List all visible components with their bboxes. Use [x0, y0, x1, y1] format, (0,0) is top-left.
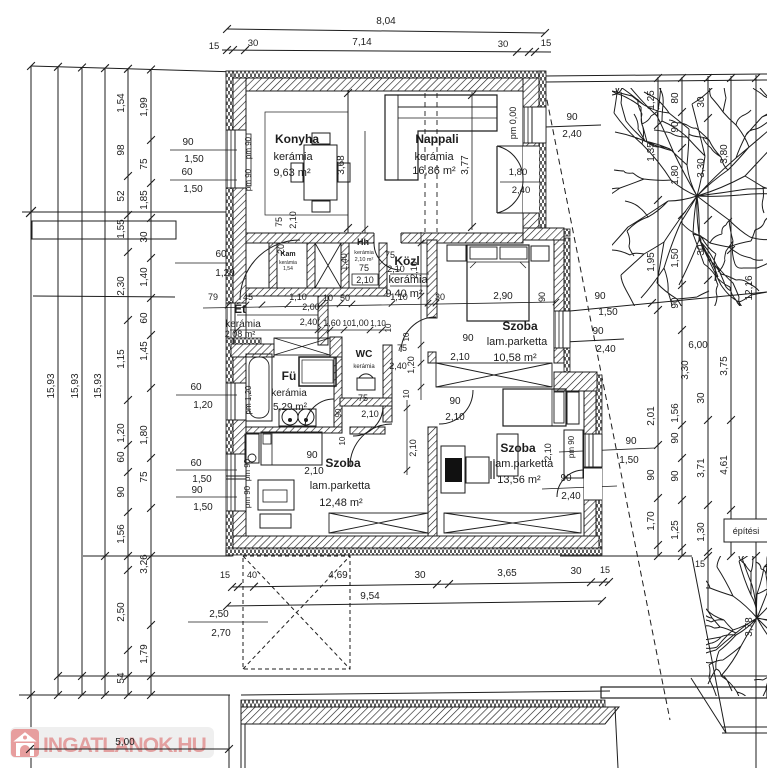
svg-text:40: 40 — [247, 570, 257, 580]
washbasins — [279, 409, 316, 426]
window right wall top — [523, 107, 546, 143]
kam left wall — [269, 243, 277, 296]
svg-text:15: 15 — [600, 565, 610, 575]
insulation band right mid — [564, 238, 570, 372]
stair X area — [315, 243, 341, 288]
svg-text:60: 60 — [215, 249, 227, 260]
right wall upper — [523, 78, 539, 228]
svg-text:90: 90 — [670, 470, 681, 482]
svg-text:1,50: 1,50 — [184, 154, 204, 165]
nightstand left — [447, 245, 466, 261]
corridor right wall upper b — [428, 352, 436, 363]
left survey vertical line 1 — [57, 67, 59, 695]
sofa nappali (L-shape) — [385, 95, 497, 180]
wc right wall — [383, 345, 392, 408]
window right mid wall — [554, 311, 570, 348]
svg-text:10: 10 — [402, 389, 411, 398]
dashed boundary line — [545, 90, 670, 720]
terrace dashed — [243, 556, 350, 669]
svg-text:kerámia: kerámia — [353, 364, 375, 370]
neighbor insulation — [241, 700, 605, 707]
bottom dim chain — [232, 582, 610, 587]
nappali dashed lines — [424, 93, 426, 232]
svg-text:1,54: 1,54 — [116, 93, 127, 113]
svg-text:2,50: 2,50 — [116, 602, 127, 622]
svg-text:4,61: 4,61 — [719, 455, 730, 475]
svg-text:13,56 m²: 13,56 m² — [497, 474, 541, 486]
svg-text:75: 75 — [139, 471, 150, 483]
svg-text:Fü: Fü — [282, 369, 297, 383]
horizontal line y=556 left — [83, 555, 232, 557]
svg-text:lam.parketta: lam.parketta — [310, 480, 371, 492]
hh right wall — [379, 243, 387, 296]
svg-text:75: 75 — [359, 263, 369, 273]
arc door szoba2 — [439, 390, 473, 424]
entrance door arcs — [497, 146, 523, 180]
svg-text:2,10: 2,10 — [304, 466, 324, 477]
svg-text:2,40(: 2,40( — [300, 317, 321, 327]
top dim 8,04 — [227, 29, 545, 33]
wall H4 under fu — [246, 427, 342, 433]
svg-text:10: 10 — [338, 436, 347, 445]
svg-text:kerámia: kerámia — [354, 250, 375, 256]
kam/stair wall — [307, 243, 315, 296]
svg-text:75: 75 — [385, 250, 395, 260]
watermark background — [10, 727, 214, 758]
dim chain B ticks — [147, 136, 155, 144]
svg-text:1,50: 1,50 — [598, 307, 618, 318]
toilet wc — [357, 378, 375, 390]
svg-text:5,29 m²: 5,29 m² — [273, 402, 308, 413]
svg-text:pm 90: pm 90 — [244, 136, 253, 159]
wc bottom wall — [340, 398, 392, 406]
svg-text:kerámia: kerámia — [271, 388, 307, 399]
nappali area line — [364, 131, 366, 233]
svg-text:pm 90: pm 90 — [243, 458, 252, 481]
svg-text:5,00: 5,00 — [115, 737, 135, 748]
svg-text:15: 15 — [541, 38, 552, 49]
right dim vertical x=756 — [755, 75, 757, 768]
svg-text:Szoba: Szoba — [325, 456, 361, 470]
svg-text:10: 10 — [323, 293, 333, 303]
svg-text:Ét: Ét — [234, 301, 246, 316]
svg-text:1,60: 1,60 — [323, 318, 341, 328]
left survey vertical line 0 (property corner) — [30, 66, 32, 768]
bottom right diagonals — [691, 678, 726, 733]
dim row y=330 — [230, 329, 390, 331]
svg-text:3,71: 3,71 — [696, 458, 707, 478]
konyha/nappali divider line — [347, 90, 349, 233]
svg-text:15,93: 15,93 — [46, 373, 57, 398]
svg-text:Hh: Hh — [357, 237, 369, 247]
svg-text:1,10: 1,10 — [289, 292, 307, 302]
svg-text:2,10: 2,10 — [356, 275, 374, 285]
right dim vertical x=731 — [730, 76, 732, 556]
corridor vertical dim lower x=407 — [406, 400, 408, 475]
epitesi box — [724, 519, 767, 542]
insulation band left — [226, 71, 233, 556]
horizontal line y=212 left — [22, 211, 228, 213]
szoba1 window left wall — [226, 454, 246, 511]
svg-text:1,79: 1,79 — [139, 644, 150, 664]
svg-text:2,30: 2,30 — [116, 276, 127, 296]
svg-text:1,50: 1,50 — [670, 248, 681, 268]
right wall lower — [584, 391, 596, 548]
svg-text:90: 90 — [462, 333, 474, 344]
svg-text:2,10: 2,10 — [543, 443, 553, 461]
svg-text:15: 15 — [695, 559, 705, 569]
arc door et big — [240, 240, 300, 300]
bed szoba2 — [503, 389, 566, 426]
bed szoba 10,58 — [467, 245, 529, 321]
svg-text:2,40: 2,40 — [512, 185, 531, 196]
svg-text:98: 98 — [116, 144, 127, 156]
svg-text:lam.parketta: lam.parketta — [487, 336, 548, 348]
svg-text:kerámia: kerámia — [414, 151, 454, 163]
right boundary line y=556 — [560, 555, 692, 557]
corridor right wall upper — [427, 240, 437, 318]
right wall lower step — [554, 372, 597, 391]
svg-text:10: 10 — [384, 323, 393, 332]
X beam band 3a — [329, 513, 428, 533]
svg-text:2,10: 2,10 — [408, 439, 418, 457]
left survey vertical line 2 — [81, 68, 83, 695]
svg-text:1,50: 1,50 — [193, 502, 213, 513]
corridor bottom wall chunk — [383, 406, 392, 422]
svg-text:pm 0,00: pm 0,00 — [508, 107, 518, 140]
step wall right — [523, 228, 564, 240]
svg-text:1,70: 1,70 — [646, 511, 657, 531]
svg-text:3,68: 3,68 — [336, 155, 347, 175]
svg-text:1,25: 1,25 — [670, 520, 681, 540]
svg-text:30: 30 — [696, 392, 707, 404]
svg-text:15,93: 15,93 — [93, 373, 104, 398]
left bump-out rectangle — [32, 221, 176, 239]
svg-text:2,90: 2,90 — [493, 291, 513, 302]
dim 90/2,40 lower right door — [542, 486, 617, 489]
svg-text:90: 90 — [306, 450, 318, 461]
svg-text:3,65: 3,65 — [497, 568, 517, 579]
dim chain A ticks — [124, 172, 132, 180]
svg-text:1,30: 1,30 — [696, 522, 707, 542]
desk szoba2 — [441, 446, 465, 493]
svg-text:12,48 m²: 12,48 m² — [319, 497, 363, 509]
mid dim row y=305 — [203, 302, 556, 308]
svg-text:15: 15 — [209, 41, 220, 52]
top wall — [233, 78, 539, 91]
svg-text:30: 30 — [139, 231, 150, 243]
svg-text:2,40: 2,40 — [389, 361, 407, 371]
left survey vertical line 4 (dim chain A) — [127, 69, 129, 695]
svg-text:1,85: 1,85 — [139, 190, 150, 210]
door right lower wall — [584, 468, 602, 500]
left wall — [233, 78, 246, 548]
right dim vertical x=682 — [681, 77, 683, 556]
kitchen chairs — [312, 133, 330, 144]
et window left wall — [226, 303, 246, 338]
svg-text:20: 20 — [276, 244, 286, 254]
et right wall — [318, 296, 328, 345]
svg-text:1,20: 1,20 — [193, 400, 213, 411]
svg-text:Szoba: Szoba — [500, 441, 536, 455]
wardrobe szoba2 — [564, 430, 583, 478]
insulation band step — [547, 229, 570, 236]
arc door fu — [305, 399, 334, 427]
arc door wc — [353, 406, 383, 436]
left survey vertical line 3 — [104, 68, 106, 695]
insulation dots under et — [234, 338, 261, 344]
bed szoba1 — [261, 432, 322, 465]
svg-text:90: 90 — [191, 485, 203, 496]
top property double line — [545, 74, 767, 76]
neighbor wall hatch — [241, 707, 619, 724]
svg-text:kerámia: kerámia — [273, 151, 313, 163]
bottom dim 9,54 — [227, 601, 602, 606]
neighbor interior lines — [240, 700, 242, 768]
insulation band right top — [539, 71, 546, 230]
svg-text:1,45: 1,45 — [139, 341, 150, 361]
bottom wall — [233, 536, 599, 548]
svg-text:10,58 m²: 10,58 m² — [493, 352, 537, 364]
entrance double door leaves — [497, 145, 523, 147]
svg-text:10: 10 — [402, 332, 411, 341]
svg-text:Nappali: Nappali — [415, 132, 458, 146]
svg-text:1,50: 1,50 — [183, 184, 203, 195]
X beam band 2 — [436, 363, 552, 387]
svg-text:1,20: 1,20 — [116, 423, 127, 443]
svg-text:9,54: 9,54 — [360, 591, 380, 602]
watermark logo — [11, 729, 39, 757]
monitor szoba2 — [466, 457, 489, 483]
bath window left wall — [226, 383, 246, 420]
svg-text:60: 60 — [139, 312, 150, 324]
svg-text:1,80: 1,80 — [509, 167, 528, 178]
svg-text:50: 50 — [340, 293, 350, 303]
dim line 90/2,40 right mid — [565, 339, 624, 342]
kitchen table — [304, 145, 337, 200]
desk szoba1 — [258, 480, 294, 510]
bottom 5,00 dim — [228, 695, 230, 768]
svg-text:2,10: 2,10 — [288, 211, 298, 229]
svg-text:2,00: 2,00 — [302, 302, 320, 312]
nightstand szoba1 — [245, 434, 259, 463]
bathtub — [246, 354, 272, 421]
svg-text:30: 30 — [498, 39, 509, 50]
svg-text:30: 30 — [570, 566, 582, 577]
bottom long line y=693 — [241, 691, 610, 695]
svg-text:60: 60 — [190, 382, 202, 393]
arc door szoba 10,58 — [401, 317, 436, 352]
left 90/1,50/60/1,50 — [170, 149, 237, 151]
svg-text:9,63 m²: 9,63 m² — [273, 167, 311, 179]
svg-text:pm 90: pm 90 — [567, 435, 576, 458]
boundary diagonal bottom right — [692, 557, 726, 733]
horizontal line y=676 long — [58, 675, 767, 677]
svg-text:60: 60 — [181, 167, 193, 178]
svg-text:2,10: 2,10 — [450, 352, 470, 363]
svg-text:WC: WC — [356, 349, 373, 360]
top dim chain 15/30/7,14/30/15 — [222, 50, 551, 52]
ticks on property line — [654, 74, 662, 82]
svg-text:1,54: 1,54 — [283, 266, 293, 272]
bottom white bar rect — [601, 687, 767, 698]
svg-text:75: 75 — [139, 158, 150, 170]
radiator konyha — [246, 134, 251, 186]
svg-text:építési: építési — [733, 526, 760, 536]
left survey vertical line 5 (dim chain B) — [150, 70, 152, 695]
svg-text:pm 1,20: pm 1,20 — [244, 385, 253, 414]
wall H2 — [246, 288, 387, 296]
svg-text:3,75: 3,75 — [719, 356, 730, 376]
corridor vertical dim x=421 — [420, 232, 422, 400]
arc door koezl-nappali — [374, 243, 401, 270]
right wall mid — [554, 240, 564, 363]
szoba1 top wall segment — [350, 427, 385, 434]
printer szoba1 — [260, 514, 291, 528]
svg-text:15,93: 15,93 — [70, 373, 81, 398]
svg-text:1,56: 1,56 — [670, 403, 681, 423]
svg-text:1,55: 1,55 — [116, 219, 127, 239]
tree 1 (plan view, right) — [518, 0, 767, 402]
svg-text:Szoba: Szoba — [502, 319, 538, 333]
dresser szoba2 — [497, 434, 518, 476]
hh left wall — [341, 243, 349, 296]
window right lower wall — [584, 434, 602, 467]
bedroom divider wall — [428, 427, 437, 536]
svg-text:90: 90 — [594, 291, 606, 302]
svg-text:1,10: 1,10 — [390, 292, 408, 302]
svg-text:8,04: 8,04 — [376, 16, 396, 27]
svg-text:2,40: 2,40 — [561, 491, 581, 502]
nightstand right — [531, 246, 549, 261]
horizontal line y=296 left — [33, 296, 175, 297]
dim 90/1,50 lower right window — [559, 448, 655, 452]
svg-text:2,40: 2,40 — [596, 344, 616, 355]
svg-text:16,86 m²: 16,86 m² — [412, 165, 456, 177]
svg-text:2,50: 2,50 — [209, 609, 229, 620]
fu right wall — [334, 343, 342, 427]
svg-text:1,80: 1,80 — [139, 425, 150, 445]
svg-text:90: 90 — [182, 137, 194, 148]
svg-text:30: 30 — [414, 570, 426, 581]
svg-text:2,70: 2,70 — [211, 628, 231, 639]
svg-text:2,40: 2,40 — [562, 129, 582, 140]
svg-text:60: 60 — [190, 458, 202, 469]
svg-text:90: 90 — [646, 469, 657, 481]
left 60/1,50/90/1,50 — [176, 469, 237, 471]
tree 2 (plan view, bottom right, partial) — [660, 501, 767, 747]
svg-text:Konyha: Konyha — [275, 132, 319, 146]
svg-text:54: 54 — [116, 672, 127, 684]
nightstand szoba2 — [567, 392, 579, 424]
insulation band right low — [596, 375, 602, 548]
dim line 90/1,50 right — [570, 292, 767, 311]
svg-text:1,00: 1,00 — [351, 318, 369, 328]
insulation band bottom — [226, 548, 602, 555]
svg-text:7,14: 7,14 — [352, 37, 372, 48]
svg-text:60: 60 — [116, 451, 127, 463]
svg-text:1,99: 1,99 — [139, 97, 150, 117]
wall chunk right of X band — [330, 337, 342, 357]
svg-text:45: 45 — [243, 292, 253, 302]
svg-text:2,10: 2,10 — [409, 261, 419, 279]
wall H3 under et — [231, 344, 274, 357]
konyha inner offset rect — [265, 112, 348, 215]
svg-text:90: 90 — [334, 408, 343, 417]
svg-text:pm 90: pm 90 — [243, 485, 252, 508]
svg-text:90: 90 — [670, 432, 681, 444]
opening door koezl-nappali — [374, 232, 401, 244]
right dim vertical x=708 — [707, 76, 709, 611]
svg-text:1,15: 1,15 — [116, 349, 127, 369]
svg-text:3,77: 3,77 — [460, 155, 471, 175]
svg-text:1,20: 1,20 — [215, 268, 235, 279]
svg-text:75: 75 — [274, 217, 284, 227]
shower cabin fu — [299, 357, 336, 386]
svg-text:1,50: 1,50 — [192, 474, 212, 485]
svg-text:1,56: 1,56 — [116, 524, 127, 544]
svg-text:pm 90: pm 90 — [244, 168, 253, 191]
svg-text:2,10: 2,10 — [387, 264, 405, 274]
X beam band 1 — [274, 338, 330, 355]
svg-text:15: 15 — [220, 570, 230, 580]
wall H1 under kitchen/nappali — [246, 233, 523, 243]
left 60/1,20 — [176, 394, 237, 396]
svg-text:2,08 m²: 2,08 m² — [225, 329, 256, 339]
svg-text:79: 79 — [208, 292, 218, 302]
insulation band top — [226, 71, 545, 78]
svg-text:90: 90 — [566, 112, 578, 123]
svg-text:90: 90 — [537, 292, 547, 302]
dim 90/2,40 top right — [545, 125, 601, 127]
svg-text:6,00: 6,00 — [688, 340, 708, 351]
svg-text:1,95: 1,95 — [646, 252, 657, 272]
bottom-left boundary line y=695 — [19, 694, 230, 696]
svg-text:30: 30 — [248, 38, 259, 49]
svg-text:90: 90 — [449, 396, 461, 407]
svg-text:1,40: 1,40 — [339, 253, 349, 271]
svg-text:80: 80 — [670, 92, 681, 104]
svg-text:3,30: 3,30 — [680, 360, 691, 380]
svg-text:75: 75 — [358, 393, 368, 403]
entrance opening right wall — [523, 146, 539, 213]
svg-text:2,01: 2,01 — [646, 406, 657, 426]
svg-text:3,26: 3,26 — [139, 554, 150, 574]
top-left boundary line with ticks — [31, 66, 238, 72]
svg-text:30: 30 — [435, 292, 445, 302]
svg-text:52: 52 — [116, 190, 127, 202]
kitchen window left wall — [226, 130, 246, 188]
right dim vertical x=658 — [657, 77, 659, 556]
svg-text:90: 90 — [116, 486, 127, 498]
svg-text:1,40: 1,40 — [139, 267, 150, 287]
arc door szoba1 — [350, 424, 392, 466]
svg-text:1,80: 1,80 — [670, 165, 681, 185]
svg-text:2,10: 2,10 — [445, 412, 465, 423]
X beam band 3b — [444, 513, 581, 533]
svg-text:1,20: 1,20 — [406, 356, 416, 374]
svg-text:3,80: 3,80 — [719, 144, 730, 164]
svg-text:2,10: 2,10 — [361, 409, 379, 419]
svg-text:90: 90 — [625, 436, 637, 447]
svg-text:1,50: 1,50 — [619, 455, 639, 466]
